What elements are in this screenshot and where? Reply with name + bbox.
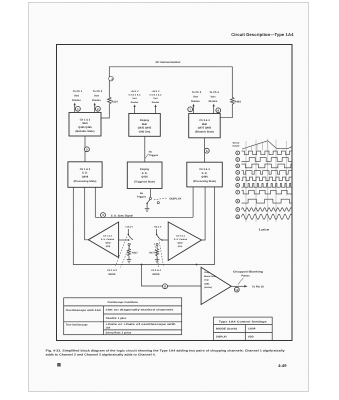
test point marker 1 (waveform column)	[236, 151, 240, 155]
svg-text:Q432: Q432	[105, 241, 111, 244]
svg-text:Q435 Q445: Q435 Q445	[138, 127, 152, 130]
wave 2	[242, 158, 292, 162]
sweep retrace verticals	[246, 141, 268, 151]
wave 8	[242, 199, 292, 203]
svg-text:DISPLAY: DISPLAY	[216, 336, 227, 339]
wire left amp to switch	[119, 239, 129, 241]
wave 3	[242, 164, 292, 168]
wire sync line	[95, 216, 193, 218]
open contact right	[156, 243, 158, 245]
wire box1 to box4	[84, 136, 86, 162]
arrow up from box3 ch4	[213, 104, 215, 114]
label To Ch 4 Vert Diodes	[209, 91, 220, 103]
svg-text:Diodes: Diodes	[152, 101, 160, 104]
svg-text:S. D.: S. D.	[142, 172, 148, 175]
leader chopped blanking	[238, 278, 244, 285]
svg-text:Sweep Rate: 2 μs/cm: Sweep Rate: 2 μs/cm	[106, 332, 133, 335]
svg-text:MODE: MODE	[108, 273, 115, 276]
svg-text:(Processing State): (Processing State)	[193, 180, 216, 183]
svg-text:Ch 3 & 4: Ch 3 & 4	[176, 235, 185, 238]
wire box6 left output to sync line	[192, 187, 194, 217]
svg-text:Circuit Description—Type 1A4: Circuit Description—Type 1A4	[231, 32, 294, 37]
svg-text:Vert: Vert	[74, 95, 79, 98]
op-amp left: Ch 1 & 2 S.D. Control Q432	[88, 222, 118, 258]
test point 9	[163, 284, 168, 289]
linkage dashes left switch to MODE	[116, 237, 131, 268]
test point 2	[96, 106, 101, 111]
svg-text:Q494: Q494	[204, 282, 210, 285]
svg-text:R437: R437	[132, 252, 138, 255]
svg-text:(Off) (On): (Off) (On)	[139, 130, 151, 133]
svg-text:Chop: Chop	[204, 271, 210, 274]
test point marker 4 (waveform column)	[236, 171, 240, 175]
switch arc right	[157, 235, 162, 240]
svg-text:MODE: MODE	[152, 273, 159, 276]
svg-text:To Pin 16: To Pin 16	[252, 286, 264, 289]
table: Type 1A4 Control Settings	[214, 317, 273, 340]
wire +12.2V stub left	[127, 229, 129, 234]
wire box6 mid output to right amp apex	[202, 187, 206, 240]
wire +12.2V stub right	[156, 229, 158, 234]
wave 10	[242, 214, 292, 219]
svg-text:(Triggered State): (Triggered State)	[134, 180, 155, 183]
label No Triggers (upper)	[149, 151, 159, 157]
svg-text:Fig. 4-33. Simplified block di: Fig. 4-33. Simplified block diagram of t…	[46, 349, 286, 352]
svg-text:Amp: Amp	[204, 279, 209, 282]
svg-text:S. D. Control: S. D. Control	[101, 238, 115, 241]
svg-text:To Ch 1: To Ch 1	[73, 90, 83, 93]
test point 5	[85, 147, 90, 152]
wave 7	[242, 190, 292, 194]
test point marker 6 (waveform column)	[236, 184, 240, 188]
display switch linkage dashes	[154, 198, 167, 200]
svg-text:S. D.: S. D.	[202, 172, 208, 175]
test point marker 9 (waveform column)	[236, 208, 240, 212]
label No Triggers (lower)	[137, 192, 147, 198]
test point 3	[101, 213, 106, 218]
svg-text:Display: Display	[140, 119, 150, 122]
wave 1	[242, 151, 292, 155]
resistor R437	[127, 245, 130, 257]
svg-text:→+12.2 V: →+12.2 V	[151, 226, 162, 229]
svg-text:Triggers: Triggers	[149, 154, 159, 157]
arrow up from display mult left	[134, 104, 136, 113]
svg-text:Q462: Q462	[177, 241, 183, 244]
svg-text:Q475 Q485: Q475 Q485	[198, 127, 212, 130]
leader no-triggers upper	[145, 154, 149, 159]
svg-text:Q455 Q465: Q455 Q465	[78, 126, 92, 129]
svg-text:Diodes: Diodes	[92, 99, 101, 102]
arrow up from box3 ch3	[192, 104, 194, 114]
open contact left	[128, 243, 130, 245]
svg-text:Display: Display	[140, 168, 150, 171]
label Ch 1 & 2 MODE	[107, 269, 117, 276]
block: Display S.D.	[127, 162, 162, 189]
svg-text:Vert: Vert	[153, 97, 158, 100]
wire from R464 to box 3	[220, 104, 232, 117]
label To Ch 1 Vert Diodes	[72, 90, 83, 102]
svg-text:+12.2 V: +12.2 V	[131, 90, 139, 93]
test point 6	[204, 148, 209, 153]
wire box2 to box5	[144, 136, 146, 162]
test point marker 5 (waveform column)	[236, 177, 240, 181]
svg-text:adds to Channel 2 and Channel: adds to Channel 2 and Channel 3 algebrai…	[46, 354, 156, 357]
test point marker 2 (waveform column)	[236, 158, 240, 162]
svg-text:Oscilloscope Conditions: Oscilloscope Conditions	[107, 301, 138, 304]
wire right amp to switch	[162, 239, 168, 241]
test point 7	[188, 107, 193, 112]
block: Ch 3 & 4 Mult	[189, 114, 221, 138]
resistor R477	[156, 245, 159, 257]
diagram frame	[57, 45, 293, 341]
svg-text:Ch 1 & 2: Ch 1 & 2	[107, 269, 117, 272]
wire wiper to ground	[146, 203, 148, 208]
svg-text:No: No	[140, 192, 144, 195]
sweep output label	[232, 142, 240, 148]
svg-text:(On): (On)	[178, 245, 183, 248]
svg-text:Ch 1 & 2: Ch 1 & 2	[80, 119, 91, 122]
svg-text:No: No	[149, 151, 153, 154]
svg-text:S. D. Sync Signal: S. D. Sync Signal	[111, 214, 133, 217]
linkage dashes right switch to MODE	[155, 237, 164, 268]
tektronix mark	[57, 363, 61, 367]
ground below R477	[155, 258, 160, 263]
sweep waveform	[242, 141, 292, 149]
label To Ch 3 Vert Diodes	[191, 91, 202, 103]
op-amp right: Ch 3 & 4 S.D. Control Q462	[168, 222, 201, 261]
svg-text:Mult: Mult	[82, 122, 87, 125]
test point 10	[234, 287, 239, 292]
svg-text:Vert: Vert	[211, 96, 216, 99]
svg-text:Pulses: Pulses	[241, 275, 250, 278]
label To Ch 2 Vert Diodes	[92, 90, 103, 102]
svg-text:Q418: Q418	[141, 176, 148, 179]
svg-text:Ch 1 & 2: Ch 1 & 2	[103, 235, 112, 238]
svg-text:To Ch 4: To Ch 4	[209, 91, 219, 94]
svg-text:Ch 3 & 4: Ch 3 & 4	[151, 269, 161, 272]
resistor R464	[231, 97, 235, 104]
svg-text:Vert: Vert	[193, 96, 198, 99]
svg-text:Type 1A4 Control Settings: Type 1A4 Control Settings	[219, 320, 268, 323]
wire bus drop to chop amp	[142, 265, 202, 287]
svg-text:Ch 3 & 4: Ch 3 & 4	[199, 168, 210, 171]
paper grain	[29, 3, 308, 391]
switch arc left	[128, 235, 133, 240]
display switch throw contact	[157, 202, 159, 204]
block: Display Mult	[129, 114, 161, 137]
svg-text:(Bistable State): (Bistable State)	[76, 130, 95, 133]
wave 6	[242, 183, 292, 187]
wire box4 mid output to left amp apex	[85, 187, 89, 240]
svg-text:Chopped Blanking: Chopped Blanking	[233, 270, 264, 273]
wire box4 left output to bottom bus	[73, 187, 214, 265]
label Chopped Blanking Pulses	[233, 270, 264, 277]
arrow up from box1 ch2	[94, 103, 96, 113]
svg-text:Mult: Mult	[202, 123, 207, 126]
svg-text:→+12.2 V: →+12.2 V	[123, 226, 134, 229]
svg-text:Q468: Q468	[201, 176, 208, 179]
test point 8	[216, 108, 221, 113]
svg-text:ADD: ADD	[248, 336, 254, 339]
svg-text:Vert: Vert	[132, 97, 137, 100]
svg-text:Blank Pulse: Blank Pulse	[204, 275, 217, 278]
svg-text:Sweep: Sweep	[233, 142, 240, 145]
svg-text:Ch 3 & 4: Ch 3 & 4	[199, 119, 210, 122]
svg-text:Output: Output	[232, 144, 239, 147]
svg-text:5 μs/cm: 5 μs/cm	[259, 228, 270, 231]
svg-text:+Gate or +Gate of oscillos: +Gate or +Gate of oscilloscope with	[106, 323, 177, 326]
svg-text:(Bistable State): (Bistable State)	[195, 131, 214, 134]
svg-text:Diodes: Diodes	[209, 100, 218, 103]
svg-text:R477: R477	[149, 252, 155, 255]
svg-text:S. D.: S. D.	[82, 172, 88, 175]
wire box3 to box6	[204, 138, 206, 162]
svg-text:DC Interconnection: DC Interconnection	[156, 61, 181, 64]
resistor R114	[108, 97, 112, 104]
label Ch 3 & 4 MODE	[151, 269, 161, 276]
wave 5	[242, 177, 292, 181]
svg-text:Triggers: Triggers	[137, 195, 147, 198]
display switch wiper	[147, 200, 150, 204]
wire DC interconnection top run	[109, 67, 232, 98]
op-amp chop blank pulse	[201, 267, 231, 304]
svg-text:To Ch 3: To Ch 3	[192, 91, 202, 94]
block: Ch 1 & 2 Mult	[69, 113, 101, 137]
svg-text:CHOP: CHOP	[248, 328, 256, 331]
svg-text:(Off): (Off)	[106, 245, 111, 248]
test point marker 8 (waveform column)	[236, 199, 240, 203]
svg-text:Oscilloscope with 1A4: Oscilloscope with 1A4	[66, 309, 102, 312]
display switch pole contact	[149, 197, 151, 199]
svg-text:Vert: Vert	[94, 95, 99, 98]
block: Ch 1 & 2 S.D.	[68, 162, 102, 188]
svg-text:±Int on diagonally-marked chan: ±Int on diagonally-marked channels	[106, 309, 175, 312]
svg-text:In Ch 3 & 4: In Ch 3 & 4	[129, 94, 142, 97]
svg-text:MODE (both): MODE (both)	[216, 328, 237, 331]
svg-text:Mult: Mult	[142, 123, 147, 126]
svg-text:Diodes: Diodes	[72, 99, 81, 102]
block: Ch 3 & 4 S.D.	[187, 162, 223, 187]
svg-text:R114: R114	[112, 101, 119, 104]
svg-text:Diodes: Diodes	[131, 101, 139, 104]
junction on bottom bus	[141, 264, 143, 266]
svg-text:Test Oscilloscope: Test Oscilloscope	[66, 324, 89, 327]
svg-text:(Processing State): (Processing State)	[74, 180, 97, 183]
arrow up from display mult right	[154, 104, 156, 113]
test point 1	[76, 106, 81, 111]
wire chop amp output with arrow	[231, 285, 247, 287]
svg-text:DISPLAY: DISPLAY	[170, 198, 182, 201]
svg-text:10: 10	[235, 289, 238, 292]
test point marker 7 (waveform column)	[236, 190, 240, 194]
arrow up from box1 ch1	[74, 103, 76, 113]
svg-text:Diodes: Diodes	[191, 100, 200, 103]
ground under display switch	[145, 208, 150, 211]
svg-text:+12.2 V: +12.2 V	[152, 90, 160, 93]
table: Oscilloscope Conditions	[64, 298, 182, 335]
wave 9	[242, 208, 292, 212]
wire from R114 to box 1	[101, 104, 109, 118]
svg-text:To Ch 2: To Ch 2	[93, 90, 103, 93]
svg-text:Q408: Q408	[82, 175, 89, 178]
svg-text:(Active): (Active)	[204, 286, 212, 289]
svg-text:1A4: 1A4	[106, 327, 111, 330]
svg-text:In Ch 1 & 2: In Ch 1 & 2	[150, 94, 163, 97]
svg-text:R464: R464	[235, 101, 242, 104]
labels above Display Mult	[129, 90, 163, 104]
svg-text:Ch 1 & 2: Ch 1 & 2	[80, 168, 91, 171]
test point marker 3 (waveform column)	[236, 164, 240, 168]
wire box4 right output to sync line	[94, 187, 96, 217]
waveform grid lines	[246, 139, 287, 223]
junction on bottom bus right	[196, 264, 198, 266]
ground below R437	[127, 258, 132, 263]
svg-text:Time/Div: 1 μSec: Time/Div: 1 μSec	[106, 317, 127, 320]
svg-text:4-49: 4-49	[278, 363, 287, 368]
test point marker 10 (waveform column)	[236, 215, 240, 219]
svg-text:S. D. Control: S. D. Control	[174, 238, 188, 241]
wave 4	[242, 171, 292, 175]
wire box5 to display switch	[149, 189, 151, 198]
test point 4	[109, 76, 114, 81]
